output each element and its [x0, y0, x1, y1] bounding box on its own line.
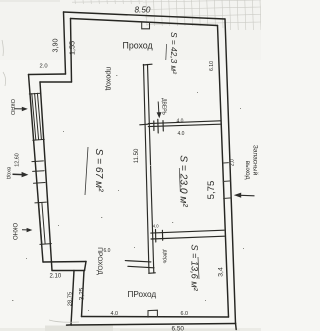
wall bottom-left horizontal end cap	[85, 262, 87, 271]
svg-text:5,75: 5,75	[206, 181, 217, 200]
svg-text:проход: проход	[105, 67, 114, 91]
door arrow (room 1)	[157, 102, 162, 119]
faint tick row top-left	[72, 0, 143, 4]
wall right inner	[218, 26, 229, 318]
svg-text:3,4: 3,4	[218, 267, 225, 277]
underline of S=67	[85, 147, 88, 195]
svg-text:дверь: дверь	[162, 250, 168, 264]
svg-text:S = 67 м²: S = 67 м²	[93, 149, 104, 193]
entry door ticks on bay wall	[32, 160, 44, 163]
wall1 door tick c	[162, 121, 164, 131]
bay wall outer line	[29, 75, 44, 263]
wall step bottom	[40, 81, 72, 83]
wall bottom outer	[71, 324, 236, 326]
wall left-upper outer	[64, 12, 66, 74]
svg-text:S = 13,6 м²: S = 13,6 м²	[190, 244, 200, 291]
partition wall left line	[144, 65, 150, 274]
wall2 top line	[151, 230, 224, 233]
wall2 door tick a	[155, 230, 157, 243]
exit arrow	[234, 193, 255, 198]
svg-text:28,75: 28,75	[68, 292, 74, 307]
svg-text:3,90: 3,90	[51, 39, 60, 53]
wall1 door tick b	[157, 119, 159, 133]
svg-text:4.0: 4.0	[111, 311, 119, 317]
partition wall right line	[148, 65, 154, 274]
scan shadow top edge	[0, 0, 60, 2]
wall bottom-left horizontal top	[43, 261, 86, 264]
underline of S=13.6	[198, 257, 199, 279]
corner overshoot bottom-left	[67, 324, 72, 326]
svg-text:3,25: 3,25	[79, 287, 86, 300]
wall top outer	[64, 12, 226, 19]
corner overshoot bottom-right	[235, 323, 238, 330]
partition bottom cap	[149, 272, 156, 275]
svg-text:4.0: 4.0	[177, 118, 184, 124]
svg-text:ОКНО: ОКНО	[11, 223, 17, 240]
niche tab on top wall	[142, 22, 150, 29]
wall1 bottom line	[148, 124, 220, 126]
wall left-upper inner	[71, 19, 72, 83]
partition top cap	[143, 63, 152, 66]
entry arrow	[13, 172, 29, 177]
partition junction tick	[140, 123, 148, 126]
scan speckles	[12, 75, 244, 311]
svg-text:выход: выход	[244, 161, 251, 180]
svg-text:11.50: 11.50	[134, 148, 140, 163]
svg-text:6.0: 6.0	[104, 248, 111, 254]
svg-text:2.0: 2.0	[40, 64, 48, 70]
svg-text:ДВЕРЬ: ДВЕРЬ	[160, 98, 166, 115]
stub wall top line	[125, 261, 151, 262]
wall top inner	[71, 19, 218, 26]
underline of S=23.0	[179, 168, 180, 192]
window arrow 2	[22, 228, 32, 232]
wall1 top line	[148, 121, 220, 124]
wall right outer	[225, 19, 236, 324]
bay wall inner line	[40, 82, 52, 271]
underline of S=42.3	[165, 44, 168, 60]
window W1 end ticks	[29, 92, 41, 95]
svg-text:ПРоход: ПРоход	[128, 290, 157, 299]
scan shadow bottom edge	[0, 328, 261, 331]
svg-text:4.0: 4.0	[178, 131, 185, 137]
svg-text:Проход: Проход	[123, 40, 153, 50]
niche tab on bottom wall	[148, 310, 157, 317]
window W1 hatch lines	[32, 94, 36, 140]
svg-text:6.50: 6.50	[172, 326, 185, 331]
svg-text:1,55: 1,55	[68, 41, 77, 55]
faint pencil smudges	[2, 40, 79, 322]
wall1 door tick a	[153, 121, 155, 131]
svg-text:2,0: 2,0	[229, 159, 235, 166]
svg-text:12,60: 12,60	[15, 153, 21, 167]
window arrow 1	[14, 107, 28, 112]
svg-text:6.10: 6.10	[209, 61, 215, 71]
wall2 bottom line	[151, 236, 225, 239]
window W2 end ticks	[35, 201, 47, 204]
wall bottom-left vertical right line	[82, 271, 85, 317]
svg-text:S = 23.0 м²: S = 23.0 м²	[178, 155, 189, 207]
svg-text:4.0: 4.0	[153, 224, 159, 229]
wall bottom-left horizontal bottom	[52, 270, 85, 272]
svg-text:S = 42,3 м²: S = 42,3 м²	[169, 32, 179, 74]
svg-text:ПРОХОД: ПРОХОД	[96, 247, 103, 275]
svg-text:2.10: 2.10	[50, 273, 62, 279]
svg-text:вход: вход	[6, 167, 12, 180]
svg-text:ОКНО: ОКНО	[9, 99, 15, 116]
stub wall bottom line	[128, 266, 154, 268]
svg-text:6.0: 6.0	[181, 311, 189, 317]
window W2 hatch lines	[39, 203, 42, 244]
wall bottom inner	[82, 316, 229, 319]
wall step top	[29, 73, 66, 76]
svg-text:8.50: 8.50	[135, 5, 151, 14]
wall bottom-left vertical left line	[71, 271, 74, 326]
faint graph grid top-right	[143, 0, 261, 30]
exit door ticks on right wall	[223, 163, 231, 199]
wall2 door tick b	[161, 230, 163, 240]
svg-text:Запасный: Запасный	[252, 145, 260, 176]
